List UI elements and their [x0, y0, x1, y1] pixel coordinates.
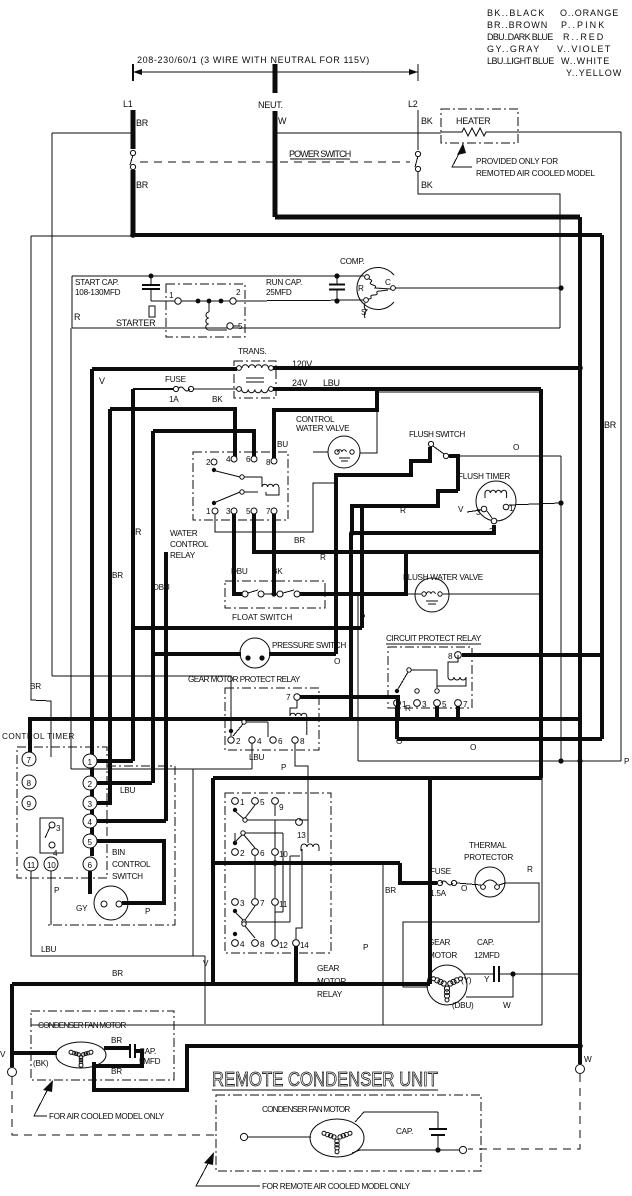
svg-text:PROVIDED ONLY FOR: PROVIDED ONLY FOR [476, 157, 558, 166]
capacitor 12MFD [474, 938, 500, 982]
wire bus y409 to relay 4 [110, 409, 235, 458]
start cap / starter enclosure box [72, 275, 364, 277]
wire protect relay 2 feed [52, 676, 231, 736]
junction P x580 [577, 758, 582, 763]
circuit protect terminal 3 [414, 700, 421, 707]
svg-text:14: 14 [300, 941, 309, 950]
svg-text:BR: BR [385, 886, 396, 895]
wire timer 2 feed [97, 781, 152, 785]
wire timer 1 feed [97, 759, 133, 763]
svg-text:10: 10 [279, 850, 288, 859]
timer terminal 5 [83, 834, 97, 848]
timer cam contact box [40, 818, 63, 858]
svg-text:R: R [135, 527, 142, 537]
wire valve left stub [313, 451, 328, 453]
wire cap return loop [94, 1051, 142, 1066]
svg-text:FOR AIR COOLED MODEL ONLY: FOR AIR COOLED MODEL ONLY [49, 1112, 165, 1121]
svg-text:2: 2 [236, 288, 241, 297]
svg-text:NEUT.: NEUT. [258, 100, 283, 110]
svg-text:FUSE: FUSE [430, 867, 452, 876]
svg-text:C: C [385, 278, 391, 287]
svg-text:P: P [363, 943, 369, 952]
enclosure wall x383 [382, 863, 384, 1025]
svg-text:O: O [334, 657, 340, 666]
svg-text:13: 13 [297, 831, 306, 840]
float switch box [225, 581, 325, 608]
wire right edge rail x621 [620, 132, 622, 761]
wire bus y778 [213, 776, 542, 780]
thermal protector [464, 841, 513, 897]
control timer [2, 732, 107, 878]
junction cap out [510, 971, 515, 976]
node NEUT [273, 64, 278, 93]
svg-text:L2: L2 [408, 99, 418, 109]
svg-text:1.5A: 1.5A [430, 889, 447, 898]
svg-text:BK: BK [212, 395, 223, 404]
junction on bus [272, 860, 278, 866]
junction remote cap [435, 1147, 440, 1152]
wire comp C line [395, 287, 561, 289]
svg-text:FLUSH TIMER: FLUSH TIMER [458, 472, 510, 481]
wire comp S feed [236, 300, 363, 301]
bin control switch [94, 848, 151, 920]
svg-text:2: 2 [236, 737, 241, 746]
svg-text:V..VIOLET: V..VIOLET [557, 44, 611, 54]
wire water relay 1 out [215, 483, 334, 532]
svg-text:R: R [405, 704, 411, 713]
wire motor bottom loop to BR bus [94, 1046, 580, 1090]
svg-text:HEATER: HEATER [456, 116, 491, 126]
gm relay terminal 8 [252, 940, 259, 947]
gm relay terminal 6 [252, 849, 259, 856]
svg-text:12: 12 [279, 941, 288, 950]
wire BK rail to box bottom [559, 288, 561, 328]
heater (dash-dot box with resistor) [441, 109, 518, 143]
wire circuit protect 7 down [458, 706, 580, 719]
transformer TRANS [234, 347, 276, 398]
svg-text:RELAY: RELAY [317, 990, 343, 999]
coil gm relay [301, 844, 319, 851]
svg-text:P: P [145, 907, 151, 916]
wire O rail x561 [560, 456, 562, 761]
svg-text:GEAR: GEAR [317, 964, 340, 973]
svg-text:BR: BR [111, 1036, 122, 1045]
svg-text:BIN: BIN [112, 848, 125, 857]
svg-text:CONTROL: CONTROL [296, 415, 335, 424]
wire remote left [248, 1136, 311, 1138]
svg-text:BU: BU [277, 440, 288, 449]
capacitor 5MFD [130, 1044, 161, 1066]
svg-text:10: 10 [47, 861, 56, 870]
circuit protect relay [386, 634, 482, 708]
svg-text:R..RED: R..RED [563, 32, 604, 42]
svg-text:4: 4 [257, 737, 262, 746]
svg-text:1A: 1A [169, 395, 179, 404]
wire motor to cap top [104, 1046, 130, 1050]
flush water valve [403, 573, 484, 612]
svg-text:4: 4 [53, 849, 58, 858]
svg-text:1: 1 [240, 798, 245, 807]
svg-text:2: 2 [206, 458, 211, 467]
wire V drop x205 [204, 956, 206, 1024]
timer terminal 4 [83, 814, 97, 828]
remote condenser unit box [216, 1095, 481, 1171]
wire gm relay 14 down [294, 946, 298, 984]
flush timer [458, 472, 516, 536]
svg-text:GY: GY [76, 904, 88, 913]
svg-text:POWER SWITCH: POWER SWITCH [289, 149, 351, 159]
wire rail x110 [108, 409, 112, 801]
gm relay terminal 7 [252, 899, 259, 906]
wire pressure right [269, 652, 336, 656]
gm relay blades row4 [233, 932, 237, 936]
svg-text:REMOTE CONDENSER UNIT: REMOTE CONDENSER UNIT [212, 1068, 438, 1091]
svg-text:GEAR: GEAR [428, 938, 451, 947]
svg-text:BR: BR [604, 420, 617, 430]
svg-text:L1: L1 [123, 99, 133, 109]
svg-text:8: 8 [300, 737, 305, 746]
svg-text:8: 8 [260, 940, 265, 949]
gm relay blades row3 [233, 909, 237, 913]
protect relay terminal 2 [228, 737, 234, 743]
svg-text:CIRCUIT PROTECT RELAY: CIRCUIT PROTECT RELAY [386, 634, 482, 643]
fuse 1.5A [430, 867, 457, 898]
gm relay internal wires [255, 805, 308, 939]
svg-text:1: 1 [206, 507, 211, 516]
wire bus y628 [132, 626, 362, 630]
svg-text:CAP.: CAP. [396, 1127, 413, 1136]
timer terminal 7 [22, 752, 36, 766]
gm relay terminal 9 [272, 798, 279, 805]
gm relay terminal 12 [272, 940, 279, 947]
wire timer 4 feed [97, 819, 166, 823]
wire V to motor [12, 1051, 57, 1055]
enclosure right edge lower [541, 778, 543, 1025]
note provided only for remoted air cooled model [452, 143, 595, 178]
svg-text:P: P [360, 613, 366, 622]
wire timer 6 to bin switch [88, 871, 92, 894]
coil circuit protect [437, 655, 466, 686]
svg-text:12MFD: 12MFD [474, 951, 500, 960]
run capacitor [266, 273, 345, 303]
wire P bus y761 [358, 760, 621, 762]
wire left rail x31 [31, 236, 51, 757]
gm relay terminal 4 [232, 940, 239, 947]
svg-text:W: W [503, 1001, 511, 1010]
wire bus y719 to control timer [30, 719, 580, 753]
wire water relay 3 to float [234, 514, 242, 594]
wire fuse feed [400, 863, 437, 883]
wire BU from LBU bus [274, 389, 377, 458]
power switch pole L1 [130, 150, 135, 155]
timer terminal 6 [83, 857, 97, 871]
wire circuit protect 8 to BR rail [462, 653, 602, 657]
svg-text:PROTECTOR: PROTECTOR [464, 853, 513, 862]
dashed V to remote [12, 1077, 215, 1135]
wire DBU rail x193 [192, 769, 194, 956]
gm relay terminal 10 [272, 849, 279, 856]
coil starter [206, 303, 227, 330]
svg-text:6: 6 [260, 849, 265, 858]
gm relay terminal 11 [272, 899, 279, 906]
wire pressure left [152, 652, 241, 656]
wire 120V bus [273, 366, 580, 370]
wire rail x362 [360, 506, 364, 628]
wire circuit protect 1 down [395, 706, 399, 739]
svg-text:3: 3 [422, 700, 427, 709]
svg-text:GY..GRAY: GY..GRAY [487, 44, 539, 54]
svg-text:24V: 24V [292, 378, 308, 388]
fuse 1A [133, 375, 237, 404]
svg-text:3: 3 [476, 508, 481, 517]
gm relay blades row2 [233, 841, 237, 845]
svg-text:(DBU): (DBU) [452, 1001, 474, 1010]
circuit protect terminal 7 [455, 700, 462, 707]
svg-text:STARTER: STARTER [116, 318, 156, 328]
svg-text:(Y): (Y) [461, 976, 472, 985]
svg-text:V: V [458, 505, 464, 514]
wire flush timer 1 out [509, 503, 561, 505]
svg-text:25MFD: 25MFD [266, 288, 292, 297]
svg-text:BR: BR [111, 1067, 122, 1076]
pressure switch [240, 638, 346, 668]
wire bus y532 to flush timer 2 [351, 525, 494, 533]
capacitor start cap [142, 274, 160, 302]
svg-text:O: O [470, 743, 476, 752]
junction P x561 [558, 758, 563, 763]
wire rail x166 [164, 552, 168, 821]
svg-text:DBU..DARK BLUE: DBU..DARK BLUE [487, 32, 553, 42]
wire rail x71 [70, 328, 72, 769]
svg-text:R: R [400, 506, 406, 515]
gm relay terminal 13 [296, 819, 303, 826]
wire float right out [300, 552, 406, 594]
gm relay terminal 5 [252, 798, 259, 805]
svg-text:7: 7 [463, 700, 468, 709]
wire R rail x350 [349, 533, 353, 719]
wire cap return [466, 974, 513, 997]
svg-text:8: 8 [27, 779, 32, 788]
terminal V [8, 1068, 17, 1077]
svg-text:BR: BR [30, 682, 41, 691]
svg-text:3: 3 [56, 824, 61, 833]
coil water relay [262, 477, 279, 495]
power switch pole L2 [415, 151, 420, 156]
svg-text:208-230/60/1 (3 WIRE WITH NEUT: 208-230/60/1 (3 WIRE WITH NEUTRAL FOR 11… [137, 55, 369, 65]
wire heater feed from NEUT [275, 132, 441, 134]
circuit protect terminal 1 [394, 700, 401, 707]
svg-text:R: R [527, 865, 533, 874]
svg-text:2: 2 [88, 780, 93, 789]
svg-text:MOTOR: MOTOR [428, 951, 457, 960]
float switch contacts [242, 590, 300, 597]
svg-text:7: 7 [27, 756, 32, 765]
svg-text:1: 1 [169, 291, 174, 300]
legend color codes [487, 8, 622, 78]
svg-text:108-130MFD: 108-130MFD [75, 288, 121, 297]
wire BR bottom bus y984 [12, 982, 430, 986]
wire fuse rail x133 [131, 389, 135, 761]
svg-text:8: 8 [266, 458, 271, 467]
svg-text:CONDENSER FAN MOTOR: CONDENSER FAN MOTOR [38, 1021, 126, 1030]
wire R staircase [352, 491, 458, 533]
wire left stub at y133 [52, 132, 133, 134]
coil protect relay [290, 700, 307, 735]
svg-text:9: 9 [27, 800, 32, 809]
wire rail x458 down [449, 456, 458, 491]
condenser fan motor [56, 1042, 106, 1068]
gm relay terminal 3 [232, 899, 239, 906]
timer terminal 11 [24, 857, 38, 871]
svg-text:V: V [99, 376, 105, 386]
svg-text:P: P [54, 886, 60, 895]
wire starter contact row [151, 300, 175, 302]
svg-text:W: W [584, 1055, 592, 1064]
wire V drop to condenser fan motor [10, 984, 14, 1067]
svg-text:6: 6 [278, 737, 283, 746]
wire LBU right rail x541 [539, 389, 543, 778]
wire flush valve right [443, 593, 541, 595]
svg-text:9: 9 [279, 803, 284, 812]
wire protect relay 7 right [300, 697, 398, 719]
protect relay terminal 8 [292, 737, 298, 743]
svg-text:O..ORANGE: O..ORANGE [560, 8, 618, 18]
svg-text:O: O [461, 884, 467, 893]
timer terminal 9 [22, 796, 36, 810]
note for remote air cooled model only [196, 1152, 411, 1191]
svg-text:P: P [624, 757, 630, 766]
terminal remote right [459, 1146, 466, 1153]
gear motor [427, 938, 467, 1005]
svg-text:REMOTED AIR COOLED MODEL: REMOTED AIR COOLED MODEL [476, 169, 595, 178]
svg-text:LBU: LBU [323, 378, 340, 388]
timer terminal 2 [83, 776, 97, 790]
wire bus y769 [71, 768, 252, 770]
protect relay terminal 4 [249, 737, 255, 743]
wire V left rail x92 [90, 369, 94, 856]
svg-text:FLUSH SWITCH: FLUSH SWITCH [409, 430, 465, 439]
circuit protect contacts [395, 689, 399, 693]
protect relay terminal 6 [270, 737, 276, 743]
svg-text:5: 5 [88, 838, 93, 847]
capacitor remote [429, 1112, 447, 1150]
timer terminal 8 [22, 775, 36, 789]
svg-text:BR: BR [136, 180, 149, 190]
svg-text:3: 3 [240, 899, 245, 908]
enclosure bottom y1025 [31, 1024, 542, 1026]
svg-text:FLUSH WATER VALVE: FLUSH WATER VALVE [403, 573, 484, 582]
wire starter 5 out [233, 325, 240, 327]
wire remote motor bottom [352, 1150, 459, 1153]
compressor COMP [340, 257, 395, 318]
svg-text:4: 4 [240, 940, 245, 949]
wire protector loop to gear motor [403, 883, 539, 987]
svg-text:CAP.: CAP. [477, 938, 494, 947]
svg-text:O: O [513, 443, 519, 452]
wire timer 5 loop to bin switch [97, 841, 164, 903]
wire remote motor top [355, 1112, 438, 1122]
junction float 7 [271, 591, 276, 596]
svg-text:CONTROL TIMER: CONTROL TIMER [2, 732, 74, 741]
svg-text:BK: BK [421, 116, 433, 126]
wire flush switch out O [449, 455, 561, 457]
svg-text:SWITCH: SWITCH [112, 872, 143, 881]
svg-text:FUSE: FUSE [165, 375, 187, 384]
svg-text:11: 11 [27, 861, 36, 870]
svg-text:7: 7 [266, 507, 271, 516]
wire rail x152 [151, 431, 155, 783]
svg-text:2: 2 [489, 527, 494, 536]
circuit protect terminal 5 [434, 700, 441, 707]
wire timer 10 down [50, 871, 52, 925]
svg-text:BR: BR [294, 536, 305, 545]
svg-text:1: 1 [88, 758, 93, 767]
wire circuit protect 5 down [435, 706, 439, 719]
svg-text:RELAY: RELAY [170, 551, 196, 560]
wire left rail x52 [51, 133, 53, 676]
dimension line with arrows [133, 64, 418, 81]
svg-text:V: V [0, 1050, 6, 1059]
svg-text:RUN CAP.: RUN CAP. [266, 278, 302, 287]
control water valve [296, 415, 360, 468]
svg-text:WATER VALVE: WATER VALVE [296, 424, 350, 433]
svg-text:8: 8 [448, 652, 453, 661]
wire 24V bus [273, 387, 541, 391]
svg-text:LBU: LBU [249, 753, 265, 762]
svg-text:START CAP.: START CAP. [75, 278, 119, 287]
svg-text:7: 7 [286, 693, 291, 702]
svg-text:O: O [396, 737, 402, 746]
wire V rail x430 [428, 778, 432, 984]
remote condenser fan motor [310, 1119, 364, 1157]
svg-text:R: R [358, 284, 364, 293]
junction C on BK rail [558, 285, 563, 290]
svg-text:6: 6 [246, 455, 251, 464]
svg-text:CONTROL: CONTROL [170, 540, 209, 549]
condenser fan motor box [31, 1011, 174, 1080]
junction R net [349, 530, 355, 536]
timer terminal 10 [44, 857, 58, 871]
gm relay terminal 14 [293, 940, 300, 947]
svg-text:7: 7 [260, 899, 265, 908]
svg-text:3: 3 [88, 800, 93, 809]
wire fuse to protector [457, 883, 481, 885]
junction L1 [130, 232, 136, 238]
starter relay box [166, 284, 245, 337]
svg-text:P: P [281, 763, 287, 772]
svg-text:COMP.: COMP. [340, 257, 365, 266]
svg-text:BK: BK [421, 180, 433, 190]
svg-text:THERMAL: THERMAL [469, 841, 507, 850]
svg-text:LBU..LIGHT BLUE: LBU..LIGHT BLUE [487, 56, 554, 66]
svg-text:(BK): (BK) [33, 1059, 49, 1068]
wire rail x213 [211, 778, 215, 984]
svg-text:V: V [203, 959, 209, 968]
gm relay blades row1 [233, 808, 237, 812]
svg-text:P..PINK: P..PINK [561, 20, 604, 30]
svg-text:PRESSURE SWITCH: PRESSURE SWITCH [272, 641, 346, 650]
svg-text:FLOAT SWITCH: FLOAT SWITCH [232, 613, 292, 622]
gm relay terminal 2 [232, 849, 239, 856]
gear motor relay box [225, 793, 331, 953]
svg-text:WATER: WATER [170, 529, 198, 538]
wire P drop [357, 594, 359, 761]
wire NEUT bus to right [275, 215, 580, 220]
svg-text:4: 4 [226, 455, 231, 464]
svg-text:W..WHITE: W..WHITE [561, 56, 609, 66]
svg-text:BR: BR [136, 118, 149, 128]
water control relay box [193, 452, 288, 520]
